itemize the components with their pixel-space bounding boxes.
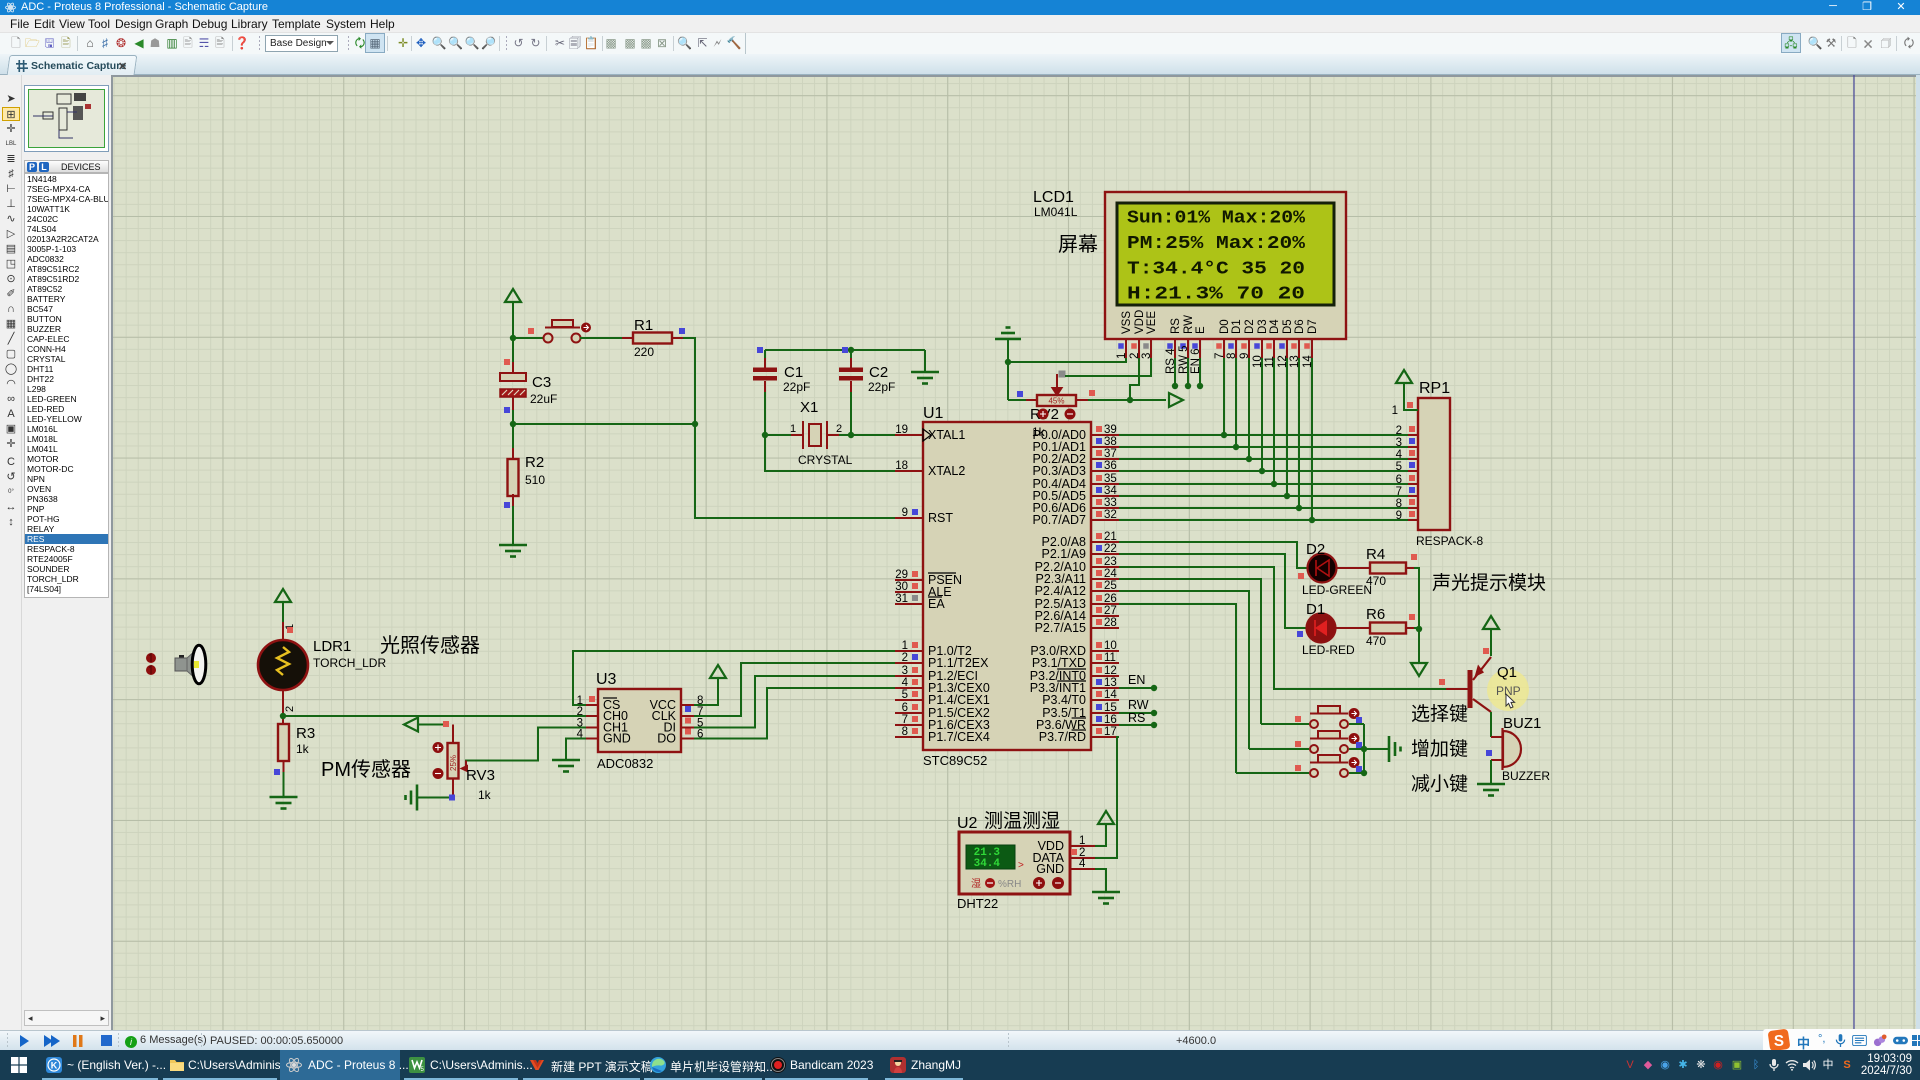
wire [695, 424, 895, 518]
svg-text:%RH: %RH [998, 879, 1021, 890]
svg-text:EA: EA [928, 597, 945, 611]
svg-text:2: 2 [902, 652, 908, 664]
ground (buzzer) [1477, 784, 1505, 796]
wire VDD net [1130, 358, 1139, 400]
svg-text:TORCH_LDR: TORCH_LDR [313, 656, 386, 670]
power terminal (rp1) [1404, 396, 1418, 410]
svg-text:RST: RST [928, 511, 953, 525]
wire P0.5 to RP1 [1119, 495, 1408, 497]
node junction [762, 432, 768, 438]
wire rv2 out [1088, 399, 1166, 401]
svg-text:15: 15 [1104, 702, 1117, 714]
svg-text:7: 7 [902, 714, 908, 726]
svg-text:9: 9 [1396, 510, 1402, 522]
power terminal (adc) [710, 665, 726, 678]
power terminal (rv2 right arrow) [1169, 393, 1183, 407]
svg-text:4: 4 [902, 677, 909, 689]
svg-text:D6: D6 [1294, 319, 1306, 334]
svg-text:U1: U1 [923, 405, 944, 422]
sogou toolbar [1763, 1029, 1920, 1052]
power terminal (q1) [1483, 616, 1499, 629]
svg-text:声光提示模块: 声光提示模块 [1432, 572, 1546, 594]
ground (adc) [552, 760, 580, 772]
wire E stub [1199, 358, 1201, 386]
resistor R4 470 [1370, 563, 1406, 574]
svg-text:P2.7/A15: P2.7/A15 [1035, 621, 1086, 635]
power terminal (ldr) [275, 589, 291, 602]
svg-text:VDD: VDD [1134, 310, 1146, 334]
ground (lcd vss) [1007, 340, 1009, 362]
svg-text:Q1: Q1 [1497, 664, 1517, 681]
wire D5 net [1286, 358, 1288, 496]
wire [1249, 748, 1309, 750]
left column [0, 75, 22, 1030]
wire VSS net [1008, 358, 1126, 400]
svg-text:510: 510 [525, 473, 545, 487]
svg-text:8: 8 [1396, 498, 1402, 510]
svg-text:R3: R3 [296, 725, 315, 742]
svg-text:LDR1: LDR1 [313, 638, 351, 655]
net label RS [1119, 724, 1154, 726]
crystal X1 [803, 421, 827, 449]
wire (rv3 bottom) [452, 779, 454, 798]
wire [1349, 748, 1364, 750]
LED D1 LED-RED [1307, 614, 1336, 643]
speaker icon [179, 655, 184, 658]
svg-text:1: 1 [902, 640, 908, 652]
wire CH1 to RV3 [465, 728, 586, 761]
svg-text:R6: R6 [1366, 606, 1385, 623]
svg-text:P3.1/TXD: P3.1/TXD [1032, 656, 1086, 670]
svg-text:PM传感器: PM传感器 [321, 758, 411, 781]
wire P2.3 to button1 [1119, 579, 1261, 724]
svg-text:C2: C2 [869, 364, 888, 381]
svg-text:D5: D5 [1282, 319, 1294, 334]
wire P2.0 to D2 [1119, 542, 1307, 568]
svg-text:12: 12 [1104, 665, 1117, 677]
net label RW [1119, 712, 1154, 714]
wire P0.7 to RP1 [1119, 519, 1408, 521]
svg-text:P1.7/CEX4: P1.7/CEX4 [928, 730, 990, 744]
push button [1310, 755, 1348, 777]
svg-text:1k: 1k [1032, 425, 1046, 439]
svg-text:P3.7/RD: P3.7/RD [1039, 730, 1086, 744]
svg-text:S: S [1774, 1033, 1784, 1050]
power terminal VCC (reset) [512, 303, 514, 338]
svg-text:RW: RW [1128, 698, 1149, 712]
svg-text:5: 5 [1396, 461, 1402, 473]
svg-text:33: 33 [1104, 497, 1117, 509]
power terminal left (rv3) [404, 718, 418, 732]
svg-text:4: 4 [1079, 858, 1086, 870]
svg-text:增加键: 增加键 [1411, 738, 1468, 760]
svg-text:10: 10 [1104, 640, 1117, 652]
LCD1 LM041L [1105, 192, 1346, 339]
capacitor C2 22pF [850, 350, 852, 358]
svg-text:P1.4/CEX1: P1.4/CEX1 [928, 693, 990, 707]
svg-text:STC89C52: STC89C52 [923, 753, 987, 768]
svg-text:LM041L: LM041L [1034, 205, 1078, 219]
svg-text:P1.1/T2EX: P1.1/T2EX [928, 656, 989, 670]
svg-text:P0.7/AD7: P0.7/AD7 [1032, 513, 1086, 527]
svg-text:27: 27 [1104, 605, 1117, 617]
svg-text:22pF: 22pF [868, 380, 895, 394]
resistor pack RP1 RESPACK-8 [1418, 398, 1450, 530]
svg-text:PM:25% Max:20%: PM:25% Max:20% [1127, 234, 1305, 254]
svg-text:19: 19 [895, 424, 908, 436]
svg-text:XTAL1: XTAL1 [928, 428, 965, 442]
svg-text:T:34.4°C 35 20: T:34.4°C 35 20 [1127, 259, 1305, 279]
svg-text:6: 6 [902, 702, 908, 714]
wire [1490, 760, 1492, 784]
svg-text:DO: DO [657, 732, 676, 746]
wire CLK to P1.1 [694, 663, 895, 716]
wire VEE net [1065, 358, 1151, 376]
svg-text:VSS: VSS [1121, 311, 1133, 334]
svg-text:220: 220 [634, 345, 654, 359]
wire vdd->pwr [1095, 824, 1106, 846]
svg-text:2: 2 [1396, 425, 1402, 437]
wire P2.2 to Q1 base [1119, 567, 1446, 689]
svg-text:1k: 1k [478, 788, 492, 802]
svg-text:29: 29 [895, 569, 908, 581]
svg-text:LED-RED: LED-RED [1302, 643, 1355, 657]
svg-text:22uF: 22uF [530, 392, 557, 406]
svg-text:8: 8 [902, 726, 908, 738]
wire [1261, 723, 1309, 725]
svg-text:2: 2 [284, 706, 296, 712]
svg-text:BUZZER: BUZZER [1502, 769, 1550, 783]
svg-text:RESPACK-8: RESPACK-8 [1416, 534, 1483, 548]
wire CH0 to LDR [283, 715, 586, 717]
svg-text:38: 38 [1104, 436, 1117, 448]
wire [765, 434, 791, 436]
svg-text:36: 36 [1104, 460, 1117, 472]
wire emitter to vcc [1490, 629, 1492, 656]
net label EN [1119, 687, 1154, 689]
title bar [0, 0, 1920, 15]
svg-text:35: 35 [1104, 473, 1117, 485]
svg-text:D2: D2 [1306, 541, 1325, 558]
svg-text:C3: C3 [532, 374, 551, 391]
wire data->P3.7 [1095, 737, 1119, 858]
svg-text:RS: RS [1128, 711, 1145, 725]
resistor R2 510 [512, 424, 514, 448]
svg-text:R1: R1 [634, 317, 653, 334]
wire D2 net [1248, 358, 1250, 459]
buzzer BUZ1 [1503, 731, 1521, 767]
svg-text:11: 11 [1104, 652, 1116, 664]
svg-text:LCD1: LCD1 [1033, 189, 1074, 206]
svg-text:P0.3/AD3: P0.3/AD3 [1032, 464, 1086, 478]
svg-text:H:21.3% 70 20: H:21.3% 70 20 [1127, 285, 1305, 305]
svg-text:D4: D4 [1269, 319, 1281, 334]
svg-text:3: 3 [902, 665, 908, 677]
wire D4 net [1273, 358, 1275, 484]
svg-text:DHT22: DHT22 [957, 896, 998, 911]
svg-text:4: 4 [1396, 449, 1403, 461]
svg-text:P2.1/A9: P2.1/A9 [1042, 547, 1087, 561]
svg-text:屏幕: 屏幕 [1058, 233, 1098, 256]
svg-text:RV3: RV3 [466, 767, 495, 784]
svg-text:470: 470 [1366, 634, 1386, 648]
svg-text:LED-GREEN: LED-GREEN [1302, 583, 1372, 597]
wire [1336, 567, 1370, 569]
node junction [1416, 626, 1422, 632]
svg-text:R2: R2 [525, 454, 544, 471]
highlight+cursor [1487, 669, 1529, 711]
svg-text:23: 23 [1104, 556, 1117, 568]
wire [282, 690, 284, 724]
svg-text:BUZ1: BUZ1 [1503, 715, 1541, 732]
wire [1418, 629, 1420, 663]
resistor R3 1k [278, 724, 289, 761]
svg-text:14: 14 [1104, 689, 1117, 701]
potentiometer RV3 1k [452, 725, 454, 744]
svg-text:XTAL2: XTAL2 [928, 464, 965, 478]
wire [765, 435, 895, 471]
wire D0 net [1223, 358, 1225, 435]
svg-text:K: K [51, 1061, 58, 1071]
capacitor C1 22pF [764, 350, 766, 358]
wire collector to buzzer [1490, 712, 1492, 737]
capacitor C3 22uF (electrolytic) [512, 338, 514, 362]
push button [1310, 731, 1348, 753]
wire P0.3 to RP1 [1119, 470, 1408, 472]
wire D7 net [1311, 358, 1313, 520]
wire RW stub [1187, 358, 1189, 386]
svg-text:25%: 25% [449, 755, 458, 771]
svg-text:21: 21 [1104, 531, 1117, 543]
resistor R1 220 [633, 333, 672, 344]
svg-text:13: 13 [1104, 677, 1117, 689]
svg-text:GND: GND [603, 732, 631, 746]
svg-text:470: 470 [1366, 574, 1386, 588]
wire [513, 337, 544, 339]
svg-text:30: 30 [895, 581, 908, 593]
svg-text:37: 37 [1104, 448, 1117, 460]
status bar [0, 1030, 1920, 1050]
wire [1414, 627, 1419, 629]
svg-text:24: 24 [1104, 568, 1117, 580]
svg-text:湿: 湿 [971, 878, 981, 890]
wire [418, 724, 448, 726]
svg-text:D1: D1 [1231, 319, 1243, 334]
wire [1349, 772, 1364, 774]
svg-text:1: 1 [1392, 405, 1398, 417]
svg-text:P3.4/T0: P3.4/T0 [1042, 693, 1086, 707]
svg-text:光照传感器: 光照传感器 [380, 634, 480, 657]
svg-text:34.4: 34.4 [974, 858, 1001, 870]
taskbar [0, 1050, 1920, 1080]
wire D6 net [1298, 358, 1300, 508]
wire P0.0 to RP1 [1119, 434, 1408, 436]
svg-text:32: 32 [1104, 509, 1117, 521]
svg-text:2: 2 [836, 423, 842, 435]
wire CS to P1.0 [573, 651, 895, 705]
svg-text:5: 5 [902, 689, 908, 701]
wire P2.1 to D1 [1119, 554, 1306, 628]
svg-text:1: 1 [790, 423, 796, 435]
wire buttons common [1363, 724, 1365, 773]
svg-text:3: 3 [1396, 437, 1402, 449]
svg-text:22pF: 22pF [783, 380, 810, 394]
LDR1 TORCH_LDR [258, 640, 308, 690]
wire [1335, 627, 1370, 629]
svg-text:D1: D1 [1306, 601, 1325, 618]
svg-text:VEE: VEE [1146, 311, 1158, 334]
svg-text:D2: D2 [1244, 319, 1256, 334]
wire [283, 772, 285, 797]
svg-text:D3: D3 [1257, 319, 1269, 334]
svg-text:17: 17 [1104, 726, 1117, 738]
wire [512, 397, 514, 410]
svg-text:25: 25 [1104, 580, 1117, 592]
tab bar [0, 54, 1920, 75]
ground (buttons) [1389, 736, 1401, 762]
svg-text:26: 26 [1104, 593, 1117, 605]
svg-text:34: 34 [1104, 485, 1117, 497]
svg-text:X1: X1 [800, 399, 818, 416]
wire P0.6 to RP1 [1119, 507, 1408, 509]
svg-text:31: 31 [895, 593, 908, 605]
wire DI to P1.2 [694, 676, 895, 728]
wire P2.5 to button3 [1119, 604, 1236, 773]
svg-text:C1: C1 [784, 364, 803, 381]
wire [1364, 748, 1388, 750]
svg-text:1: 1 [1079, 835, 1085, 847]
svg-text:28: 28 [1104, 617, 1117, 629]
transistor Q1 PNP [1446, 688, 1468, 690]
svg-text:D7: D7 [1307, 319, 1319, 334]
svg-text:U3: U3 [596, 671, 617, 688]
wire [1236, 772, 1309, 774]
menu bar [0, 15, 1920, 33]
svg-text:EN: EN [1128, 673, 1145, 687]
svg-text:16: 16 [1104, 714, 1117, 726]
ground (xtal) [924, 350, 926, 372]
node junction [280, 713, 286, 719]
svg-text:18: 18 [895, 460, 908, 472]
ground (dht22) [1092, 892, 1120, 904]
node junction [848, 347, 854, 353]
svg-text:减小键: 减小键 [1411, 773, 1468, 795]
svg-text:1k: 1k [296, 742, 310, 756]
toolbar [0, 33, 1920, 54]
wire D3 net [1261, 358, 1263, 471]
svg-text:6: 6 [1396, 474, 1402, 486]
ground (reset) [499, 545, 527, 557]
wire [1349, 723, 1364, 725]
svg-text:>: > [1018, 860, 1024, 871]
wire D1 net [1235, 358, 1237, 447]
power terminal down (leds) [1411, 663, 1427, 676]
LED D2 LED-GREEN [1308, 554, 1337, 583]
wire P0.4 to RP1 [1119, 483, 1408, 485]
svg-text:22: 22 [1104, 543, 1117, 555]
wire DO to P1.3 [694, 688, 895, 739]
power terminal (dht22) [1098, 811, 1114, 824]
svg-text:R4: R4 [1366, 546, 1385, 563]
svg-text:测温测湿: 测温测湿 [984, 810, 1060, 832]
button (reset) [544, 320, 581, 343]
svg-text:CRYSTAL: CRYSTAL [798, 453, 853, 467]
wire P0.2 to RP1 [1119, 458, 1408, 460]
svg-text:RW: RW [1183, 315, 1195, 334]
wire P2.4 to button2 [1119, 591, 1249, 749]
node junction [510, 421, 516, 427]
svg-text:E: E [1195, 326, 1207, 334]
resistor R6 470 [1370, 623, 1406, 634]
svg-text:U2: U2 [957, 815, 978, 832]
svg-text:7: 7 [1396, 486, 1402, 498]
svg-text:选择键: 选择键 [1411, 703, 1468, 725]
svg-text:Sun:01% Max:20%: Sun:01% Max:20% [1127, 209, 1305, 229]
svg-text:P2.4/A12: P2.4/A12 [1035, 584, 1086, 598]
svg-text:45%: 45% [1048, 397, 1064, 406]
svg-text:GND: GND [1036, 862, 1064, 876]
wire [1414, 568, 1419, 629]
wire GND [566, 739, 586, 761]
svg-text:39: 39 [1104, 424, 1117, 436]
wire gnd [1095, 869, 1106, 892]
potentiometer RV2 1k [1037, 395, 1076, 406]
node junction [510, 335, 516, 341]
push button [1310, 706, 1348, 728]
ground (r3) [270, 797, 298, 809]
ground left (rv3) [406, 785, 418, 811]
svg-text:RS: RS [1170, 318, 1182, 334]
MCU U1 STC89C52 [923, 422, 1091, 750]
wire [672, 337, 683, 339]
wire P0.1 to RP1 [1119, 446, 1408, 448]
wire RS stub [1174, 358, 1176, 386]
svg-text:RP1: RP1 [1419, 380, 1450, 397]
wire [580, 337, 622, 339]
wire [512, 506, 514, 545]
svg-text:D0: D0 [1219, 319, 1231, 334]
wire VCC pwr [694, 678, 718, 705]
wire (xtal top rail) [765, 349, 925, 351]
svg-text:ADC0832: ADC0832 [597, 756, 653, 771]
svg-text:9: 9 [902, 507, 908, 519]
